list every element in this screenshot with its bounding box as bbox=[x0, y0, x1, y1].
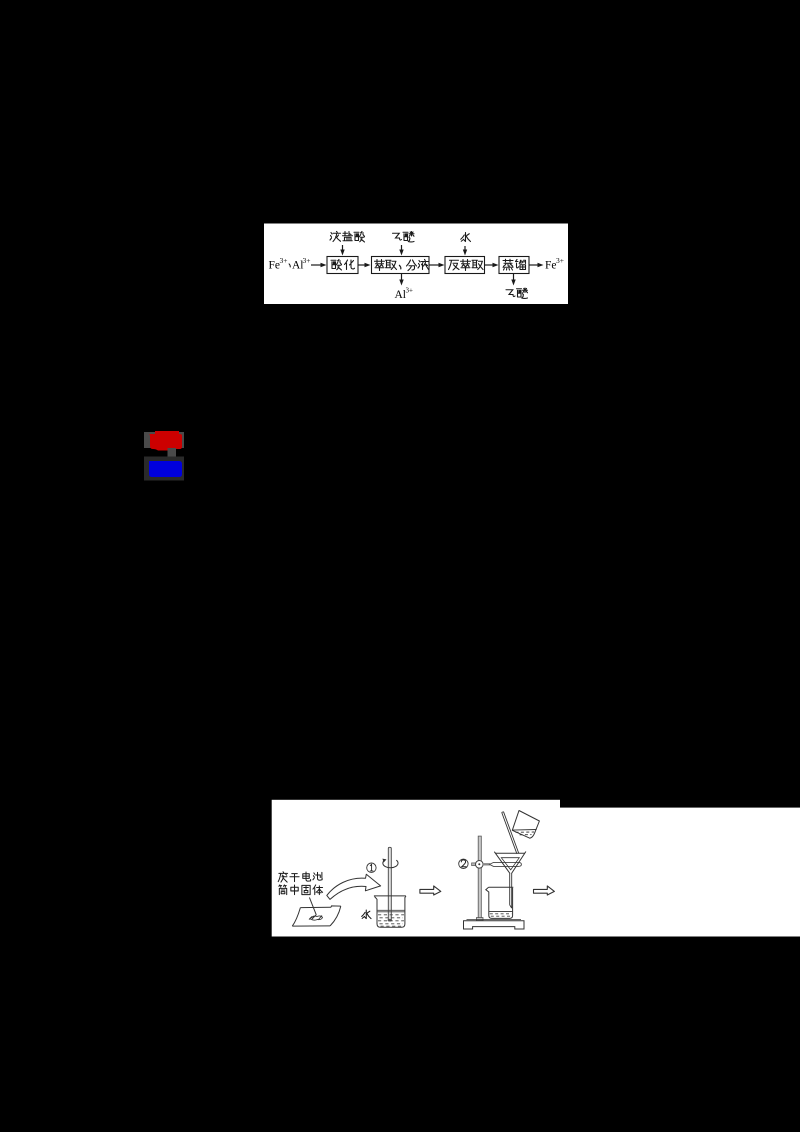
curved pour arrow (outline) bbox=[327, 874, 381, 899]
stirring rod bbox=[388, 847, 392, 921]
label 水 top bbox=[461, 233, 471, 242]
wire arrow input to 酸化 bbox=[311, 263, 327, 267]
pouring beaker (tilted) bbox=[512, 811, 539, 839]
leader line from label to solid sample bbox=[309, 897, 316, 915]
water surface and dashes in beaker 1 bbox=[377, 910, 405, 926]
answer highlight blue block bbox=[144, 457, 184, 481]
block arrow 2 bbox=[534, 886, 555, 895]
process box 反萃取 bbox=[445, 257, 485, 274]
beaker 1 with water bbox=[374, 896, 406, 927]
PANEL 2 : experiment figure background right part bbox=[560, 808, 800, 937]
wire arrow 乙醚 down to 萃取、分液 bbox=[399, 245, 403, 256]
stand vertical rod bbox=[476, 836, 483, 921]
wire arrow 反萃取 to 蒸馏 bbox=[485, 263, 499, 267]
node Fe3+、Al3+ input bbox=[269, 256, 311, 272]
svg-text:Al: Al bbox=[395, 289, 407, 301]
process box 蒸馏 bbox=[499, 257, 529, 274]
wire arrow 萃取、分液 to 反萃取 bbox=[430, 263, 445, 267]
svg-text:3+: 3+ bbox=[280, 256, 288, 265]
label 浓盐酸 bbox=[330, 231, 365, 242]
filtrate in receiving beaker bbox=[489, 912, 513, 917]
step label circled 2 bbox=[459, 859, 468, 868]
step label circled 1 bbox=[367, 863, 376, 872]
funnel stem bbox=[510, 873, 512, 908]
wire arrow 蒸馏 down to 乙醚 bbox=[511, 274, 515, 286]
receiving beaker bbox=[486, 887, 514, 918]
wire arrow 水 down to 反萃取 bbox=[463, 246, 467, 256]
svg-text:3+: 3+ bbox=[303, 256, 311, 265]
wire arrow 浓盐酸 down to 酸化 bbox=[340, 245, 344, 256]
clamp arm holding funnel bbox=[483, 862, 521, 866]
answer highlight red block bbox=[144, 431, 184, 451]
glass rod guiding pour bbox=[502, 812, 519, 854]
rotation arrow on rod bbox=[382, 859, 398, 868]
svg-text:Fe: Fe bbox=[269, 260, 281, 272]
wire arrow 萃取、分液 down to Al3+ bbox=[399, 274, 403, 286]
liquid in pouring beaker bbox=[513, 830, 537, 835]
svg-text:Fe: Fe bbox=[545, 260, 557, 272]
svg-text:3+: 3+ bbox=[406, 287, 414, 295]
block arrow 1 bbox=[420, 886, 441, 895]
clamp stub and knob bbox=[472, 861, 484, 869]
node 乙醚 bottom output bbox=[506, 288, 528, 298]
funnel with filter paper bbox=[494, 852, 526, 874]
solid sample scribble bbox=[309, 915, 323, 920]
wire arrow 酸化 to 萃取、分液 bbox=[359, 263, 371, 267]
label 水 (water) bbox=[362, 910, 371, 919]
stand base bbox=[464, 920, 525, 929]
paper tray bbox=[292, 906, 341, 926]
connector between highlights bbox=[168, 448, 177, 457]
process box 萃取、分液 bbox=[372, 257, 430, 274]
PANEL 1 : flowchart background bbox=[264, 224, 568, 305]
node Al3+ output bbox=[395, 287, 414, 302]
wire arrow 蒸馏 to Fe3+ bbox=[530, 263, 544, 267]
label 废干电池 / 筒中固体 bbox=[278, 872, 322, 895]
PANEL 2 : experiment figure background left part bbox=[272, 800, 560, 937]
label 乙醚 top bbox=[393, 232, 415, 242]
process box 酸化 bbox=[327, 257, 358, 274]
node Fe3+ output bbox=[545, 256, 564, 272]
svg-text:3+: 3+ bbox=[556, 256, 564, 265]
